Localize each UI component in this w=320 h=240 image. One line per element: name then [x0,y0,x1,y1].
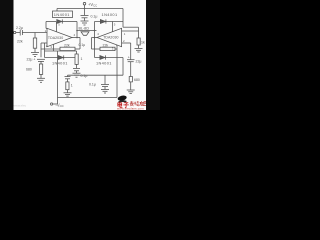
ground below R2 [37,78,45,82]
wire mid bus [68,75,124,76]
wire U1 pin3 bus [45,44,77,51]
wire D4 right drop [122,58,124,76]
svg-text:1N4001: 1N4001 [96,60,112,65]
wire speaker line between outputs [77,30,97,32]
wire bottom -V rail [58,97,118,99]
text labels [16,2,145,108]
svg-text:22μ: 22μ [136,60,142,64]
svg-text:22μ +: 22μ + [27,58,36,62]
ground below R1 [31,53,39,57]
junction dots output nodes [76,8,95,39]
wire D1 left drop to U1 corner [46,22,48,29]
diode D1 1N4001 [57,19,63,23]
watermark char you [140,101,144,106]
diode D3 1N4001 [58,55,64,59]
wire D4 left riser [94,38,96,58]
svg-text:BL-8Ω: BL-8Ω [79,27,90,31]
svg-text:0.1μ: 0.1μ [79,43,86,47]
capacitor C7 0.1u [101,75,109,89]
wire U2 output pin4 [92,37,98,39]
svg-text:0.1μ: 0.1μ [89,83,96,87]
speaker BL [81,32,89,36]
node -Vcc terminal [50,98,57,106]
svg-text:1: 1 [71,84,73,88]
wire rail right drop [122,9,124,28]
op-amp U1 TDA2030 [47,28,72,46]
wire U2 pin1 line [122,30,139,32]
svg-text:+: + [128,55,130,59]
ground below C3 [81,21,89,25]
watermark char fa [130,101,134,106]
resistor R4 22k U1 feedback [41,38,80,51]
wire top +V rail [57,8,123,10]
watermark logo elecfans [117,95,127,103]
op-amp U2 TDA2030 [97,28,122,46]
left black bar [0,0,14,110]
node +Vcc terminal [83,2,86,8]
capacitor C2 22u feedback [37,59,45,64]
wire rail L to R3 column [123,27,139,38]
resistor R2 680 [39,64,42,78]
svg-text:1: 1 [81,57,83,61]
resistor R8 22k U2 feedback [92,38,118,51]
diode D2 1N4001 [100,19,106,23]
resistor R7 680 [129,77,132,90]
wire U1 pin5 supply [56,22,58,32]
wire D1 cathode to output column [62,21,77,23]
watermark char shao [134,101,139,106]
wire U1 output pin4 [72,37,80,39]
svg-text:680: 680 [26,67,32,71]
capacitor C3 0.1u +V decoupling [81,9,89,21]
wire U2 pin2 line [122,42,131,44]
watermark text 电子发烧友 [118,102,129,108]
wire output riser to speaker line [76,22,78,38]
wire pin2 drop A [40,43,42,57]
svg-text:1k: 1k [141,41,145,45]
svg-text:0.1μ: 0.1μ [91,15,98,19]
right black bar [146,0,160,110]
svg-text:22k: 22k [64,43,70,47]
svg-text:TDA2030: TDA2030 [48,36,63,40]
svg-text:1N4001: 1N4001 [54,12,70,17]
wire U2 pin3 column [116,45,119,98]
ground below R6 [64,93,72,96]
svg-text:22k: 22k [17,40,23,44]
svg-text:1N4001: 1N4001 [102,12,118,17]
wire pin2 drop B [44,43,46,58]
watermark char dian [118,102,123,108]
wire U1 pin2 inverting [41,42,47,44]
svg-text:1N4001: 1N4001 [52,60,68,65]
svg-text:www.elec: www.elec [14,103,27,107]
svg-text:-VCC: -VCC [56,102,64,108]
svg-text:22k: 22k [103,43,109,47]
resistor R1 22k input bias [33,33,36,53]
wire bottom diode D4 line [95,57,124,59]
background [0,0,160,110]
ground below C4 [73,73,81,77]
svg-text:0.1μ: 0.1μ [81,74,88,78]
capacitor C1 input 2.2u [14,30,47,36]
svg-text:TDA2030: TDA2030 [103,36,118,40]
resistor R5 1 zobel U1 [75,51,78,68]
wire D1 anode lead [46,21,56,23]
wire bottom diode D3 line [45,57,76,59]
wire diode D2 line [95,21,124,23]
capacitor C4 0.1u zobel U1 [73,69,80,74]
svg-text:+VCC: +VCC [88,2,97,8]
resistor R6 1 [66,82,69,93]
wire rail drop to D1 label box [56,9,58,12]
capacitor C5 [65,77,71,82]
wire -Vee column [57,51,59,98]
diode D1 label box [53,11,73,18]
watermark char wang [144,102,147,106]
resistor R3 1k [137,38,140,48]
wire D2 left drop to U2 output column [94,22,96,38]
diode D4 1N4001 [100,55,106,59]
ground below R7 [127,90,135,94]
watermark char zi [123,103,128,108]
ground below C7 [101,90,109,94]
wire U2 pin5 supply [112,22,114,32]
svg-text:680: 680 [134,78,140,82]
svg-text:www.elecfans.com: www.elecfans.com [117,107,144,111]
ground below R3 [135,49,143,53]
svg-text:2.2μ: 2.2μ [16,26,23,30]
capacitor C6 22u [127,43,135,77]
